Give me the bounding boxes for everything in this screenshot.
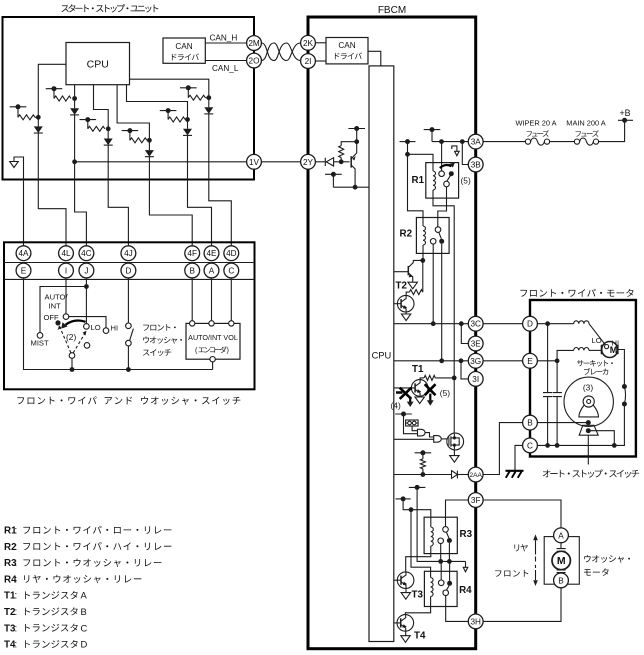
junction blade-gnd <box>612 443 617 448</box>
wire collector node to CPU <box>355 186 369 188</box>
direction arrow rear/front <box>533 534 538 586</box>
label LO <box>91 323 101 332</box>
label T3 <box>412 590 424 601</box>
wire pin J down <box>85 278 87 287</box>
power tick P13 <box>409 485 426 490</box>
wire CPU to T3 base <box>394 579 398 581</box>
wire E node to inductor L2 <box>557 350 574 360</box>
svg-text:HI: HI <box>111 324 119 333</box>
wire CPU to node1 feed <box>38 64 66 117</box>
wire CPU to T1 base <box>394 387 412 389</box>
label circuit breaker <box>577 360 613 375</box>
wire node2 to DA2 <box>74 99 76 109</box>
wire node5 to DA5 <box>187 120 189 129</box>
svg-text:D: D <box>81 639 88 650</box>
relay R1 contact NC dot <box>449 171 454 176</box>
svg-text:INT: INT <box>49 302 62 311</box>
power tick P9 <box>424 127 441 132</box>
wire pin I to OFF contact <box>65 278 67 314</box>
svg-text:2O: 2O <box>249 56 260 65</box>
power tick P3 <box>80 117 97 122</box>
wire CPU to 3G <box>394 360 469 362</box>
wire G1 to G2 <box>425 433 433 437</box>
junction C1-gnd <box>545 443 550 448</box>
wire P1 stem <box>17 107 19 118</box>
transistor T1 <box>411 380 428 397</box>
svg-text:3G: 3G <box>470 357 481 366</box>
front wiper motor box <box>530 300 636 457</box>
wire R4 coil feed <box>411 510 431 578</box>
wire CPU to node6 feed <box>130 79 209 98</box>
wire A to motor <box>560 543 562 549</box>
connector 4C <box>79 246 94 261</box>
svg-text:E: E <box>527 357 533 366</box>
svg-text::: : <box>15 542 18 553</box>
wire R4 coil to T4 <box>405 597 430 615</box>
diode DA6 <box>204 107 213 114</box>
wire P6 stem <box>187 88 189 98</box>
encoder terminal 1 <box>190 321 195 326</box>
relay R1 arrow <box>440 163 455 169</box>
svg-text:R1: R1 <box>412 175 425 186</box>
chassis ground <box>506 471 524 478</box>
svg-text:4L: 4L <box>61 249 71 258</box>
wire 2Y to diode D1 <box>315 161 325 163</box>
resistor R7 <box>424 375 435 380</box>
washer switch contact upper <box>126 323 132 329</box>
legend R2 <box>4 542 171 553</box>
label AUTO/INT <box>45 293 69 311</box>
wire sensor to gate1 <box>412 426 417 431</box>
connector 2O <box>247 53 262 68</box>
connector 3G <box>468 353 483 368</box>
svg-text:C: C <box>527 441 533 450</box>
ground T3 <box>401 593 410 600</box>
svg-text:4A: 4A <box>18 249 29 258</box>
connector 3E <box>468 336 483 351</box>
junction node4 <box>147 138 152 143</box>
fuse WIPER 20A <box>525 138 549 145</box>
wire J node to MIST contact <box>40 287 86 333</box>
relay R2 box <box>416 218 449 254</box>
resistor R5 <box>339 146 344 158</box>
wire 2I to CAN driver <box>315 60 326 62</box>
FBCM box <box>308 17 476 649</box>
wire RA1 to node1 <box>35 116 38 118</box>
junction R1 contact feed <box>439 139 444 144</box>
resistor RA1 <box>18 115 35 120</box>
switch wiper pivot <box>69 353 75 359</box>
label (4) <box>391 401 401 411</box>
relay R3 coil <box>431 527 433 546</box>
svg-text:A: A <box>209 266 215 275</box>
relay R4 coil <box>431 578 433 597</box>
label OFF <box>44 313 60 322</box>
connector pin C (switch) <box>224 263 239 278</box>
wire 2AA to B <box>483 423 522 475</box>
svg-text:R4: R4 <box>459 585 472 596</box>
svg-text::: : <box>15 558 18 569</box>
ground Q2 <box>401 314 410 321</box>
wire C to chassis ground <box>515 445 523 470</box>
relay R2 contact NC dot <box>439 239 444 244</box>
svg-text:C: C <box>228 266 234 275</box>
wire 3F to washer A <box>483 500 561 528</box>
wire washer B to 3H <box>483 588 561 622</box>
connector 2AA <box>468 467 483 482</box>
diode DA2 <box>70 108 79 115</box>
wire OFF to HI contact <box>69 317 106 328</box>
connector pin A (switch) <box>204 263 219 278</box>
relay R2 arm <box>439 232 442 238</box>
label HI <box>111 324 119 333</box>
junction C2-gnd <box>555 443 560 448</box>
junction T2 collector node <box>420 258 425 263</box>
relay R3 arm <box>446 532 449 538</box>
buffer gate G2 <box>434 436 442 443</box>
legend R4 <box>4 574 141 585</box>
connector pin I (switch) <box>59 263 74 278</box>
junction R2NO-3C <box>431 321 436 326</box>
wire CAN driver to CPU <box>368 51 381 66</box>
svg-text:(5): (5) <box>461 175 471 185</box>
svg-text:T4: T4 <box>414 631 426 642</box>
autostop contact lower <box>622 402 627 407</box>
rotation arrow (2) <box>61 321 85 329</box>
wire B to brush dot <box>537 422 588 424</box>
wire T1 collector to R7 <box>420 378 424 380</box>
power tick P4 <box>122 128 139 133</box>
svg-text:2K: 2K <box>303 39 314 48</box>
wire P9 to +B rail <box>431 130 433 142</box>
svg-text:3C: 3C <box>470 320 481 329</box>
junction node5 <box>185 117 190 122</box>
connector row divider 1 <box>4 262 255 264</box>
auto-stop blade <box>579 425 598 435</box>
svg-text:B: B <box>527 419 533 428</box>
connector 4F <box>185 246 200 261</box>
svg-text:3H: 3H <box>470 617 481 626</box>
encoder terminal 3 <box>229 321 234 326</box>
junction 3B branch <box>460 139 465 144</box>
svg-text:4J: 4J <box>124 249 133 258</box>
wire L2 to LO brush <box>589 349 601 351</box>
connector 4E <box>204 246 219 261</box>
transistor Q2 <box>397 295 414 312</box>
wire DA6 to connector 4D <box>209 114 232 246</box>
wire drain line into Q3 <box>453 378 455 433</box>
label fuse 1 <box>527 130 549 137</box>
relay R4 box <box>424 571 457 606</box>
relay R4 contact NC dot <box>447 581 452 586</box>
encoder terminal 4 <box>210 357 215 362</box>
+B terminal <box>618 118 633 123</box>
connector 4L <box>59 246 74 261</box>
svg-text:B: B <box>189 266 195 275</box>
label R1 <box>412 175 425 186</box>
wire 3C to D <box>483 323 522 325</box>
connector row divider 2 <box>4 278 255 280</box>
connector 3A <box>468 134 483 149</box>
resistor R6 <box>409 290 422 295</box>
connector pin E (switch) <box>16 263 31 278</box>
wire R6 to Q2 collector <box>406 292 409 295</box>
wire R4 NC up <box>449 561 451 580</box>
wire R4 common to 3H <box>446 596 469 622</box>
junction pivot-bus <box>70 367 75 372</box>
label MIST <box>31 338 50 347</box>
washer motor M2 <box>552 551 570 569</box>
inductor L1 <box>574 321 589 324</box>
connector pin J (switch) <box>79 263 94 278</box>
switch contact INT <box>84 343 90 349</box>
wire M to autostop contact <box>618 350 625 385</box>
wire pivot to bus <box>71 358 73 369</box>
wire DA3 to connector 4J <box>108 145 128 246</box>
relay R1 box <box>426 163 459 199</box>
wire R1 pivot to R2 common <box>438 187 447 227</box>
washer brush upper <box>557 549 566 552</box>
junction node3 <box>106 126 111 131</box>
wire 3G to E <box>483 360 522 362</box>
wire P2 stem <box>53 89 55 99</box>
wire CPU to Q2 base <box>394 303 398 305</box>
label (3) <box>583 382 593 392</box>
front wiper and washer switch box <box>4 242 255 389</box>
junction R2NC-3G <box>439 358 444 363</box>
wire CPU to 3C <box>394 323 469 325</box>
label front <box>495 570 528 577</box>
connector pin B (switch) <box>185 263 200 278</box>
wire RA4 to node4 <box>147 139 150 141</box>
switch unit title <box>17 396 240 404</box>
wire pin B to encoder <box>191 278 193 321</box>
diode DA1 <box>34 126 43 133</box>
svg-text:CPU: CPU <box>87 59 109 71</box>
junction washer-bus <box>126 367 131 372</box>
wire CPU to 2AA <box>394 474 452 476</box>
connector 2Y <box>301 154 316 169</box>
capacitor C2 <box>553 393 562 397</box>
wire pin C to encoder <box>230 278 232 321</box>
svg-text:T3: T3 <box>412 590 424 601</box>
wire R4 NO up <box>440 561 442 580</box>
wire coil rail down to R2 coil <box>408 154 424 226</box>
svg-text:R2: R2 <box>400 229 413 240</box>
ground T1 <box>415 397 424 404</box>
wire RA5 to node5 <box>185 119 187 121</box>
wire encoder to bus <box>212 362 214 370</box>
relay R3 contact NO <box>438 538 444 544</box>
wire node6 to DA6 <box>208 98 210 108</box>
svg-text:CAN_L: CAN_L <box>212 64 239 73</box>
label LO <box>592 336 602 345</box>
wire R7 to drain line <box>435 377 454 379</box>
connector 4A <box>16 246 31 261</box>
junction Q1 emitter node <box>354 139 359 144</box>
svg-text:E: E <box>21 266 27 275</box>
legend T4 <box>4 639 88 651</box>
power tick P12 <box>415 450 432 455</box>
svg-text:R3: R3 <box>460 529 473 540</box>
wire R1 coil to drain line <box>433 190 454 378</box>
wire P8 to collector node <box>332 174 334 187</box>
label front washer switch <box>143 324 182 356</box>
label +B <box>619 108 630 118</box>
wiper arm dashed to LO <box>73 331 86 353</box>
label (5) at T1 <box>440 388 450 398</box>
auto-stop cam ring <box>583 396 594 407</box>
wire P7 to Q1 emitter <box>356 129 358 154</box>
relay R4 arm <box>446 586 449 591</box>
wire R1 common up <box>441 142 443 171</box>
resistor R8 <box>420 459 425 469</box>
svg-text:3I: 3I <box>472 375 479 384</box>
connector C (motor) <box>523 438 538 453</box>
svg-text::: : <box>15 607 18 618</box>
junction node 1V <box>72 159 77 164</box>
fuse MAIN 200A <box>574 138 598 145</box>
svg-text:T1: T1 <box>412 364 424 375</box>
relay R1 arm <box>447 175 451 181</box>
junction 3I branch <box>459 358 464 363</box>
encoder terminal 2 <box>209 321 214 326</box>
svg-text:2I: 2I <box>305 57 312 66</box>
switch contact HI <box>103 328 109 334</box>
power tick P10 <box>400 139 416 144</box>
wire CPU to node2 feed <box>74 85 76 99</box>
svg-text:T2: T2 <box>396 281 408 292</box>
twisted pair CAN bus <box>262 43 301 61</box>
wire CPU to T2 base <box>394 271 409 273</box>
svg-text:CAN: CAN <box>338 41 355 50</box>
wire R3 NC down <box>448 543 450 561</box>
junction 3E branch <box>459 321 464 326</box>
label auto-stop switch <box>543 469 639 477</box>
svg-text:WIPER 20 A: WIPER 20 A <box>515 119 556 128</box>
legend R1 <box>4 526 171 537</box>
wire P14 to R3 coil <box>403 499 431 527</box>
inductor L2 <box>574 347 589 350</box>
wire coil rail to R1 coil <box>408 154 434 171</box>
legend R3 <box>4 558 161 569</box>
indicator arrow (5) at R1 <box>452 146 459 156</box>
svg-text:(3): (3) <box>583 382 593 392</box>
start-stop unit box <box>3 17 255 180</box>
auto-stop plate circle <box>564 377 613 426</box>
legend T3 <box>4 622 88 634</box>
transistor T4 <box>397 615 414 632</box>
auto-stop label leader <box>587 435 589 464</box>
wire R5 to emitter rail <box>341 142 357 146</box>
label WIPER 20 A <box>515 119 556 128</box>
svg-text::: : <box>15 640 18 651</box>
CAN driver U2 (start-stop unit) <box>163 38 205 63</box>
svg-text:+B: +B <box>619 108 630 118</box>
wire Q3 source to ground <box>453 450 455 456</box>
relay R2 contact NO <box>430 239 436 245</box>
connector A (washer) <box>554 528 569 543</box>
power tick P7 <box>348 126 365 131</box>
power tick P1 <box>10 104 27 109</box>
wire fuse to fuse <box>550 141 575 143</box>
power tick P6 <box>180 85 197 90</box>
switch contact OFF <box>63 314 69 320</box>
svg-text:B: B <box>558 576 564 585</box>
svg-text:OFF: OFF <box>44 313 60 322</box>
svg-text:CAN_H: CAN_H <box>210 34 238 43</box>
svg-text:3B: 3B <box>471 160 482 169</box>
capacitor C1 <box>543 393 552 397</box>
wire P5 stem <box>167 111 169 120</box>
ground T2 <box>408 282 417 289</box>
wire +B rail to 3A <box>432 141 468 143</box>
svg-text::: : <box>15 623 18 634</box>
label R2 <box>400 229 413 240</box>
wire node2 out to connector 4C <box>75 162 87 246</box>
svg-text:FBCM: FBCM <box>378 5 406 16</box>
junction R3NC rail <box>447 559 452 564</box>
connector B (washer) <box>554 573 569 588</box>
svg-text::: : <box>15 591 18 602</box>
connector B (motor) <box>523 415 538 430</box>
svg-text:2Y: 2Y <box>303 158 314 167</box>
wire R3 NO down <box>440 544 442 562</box>
CPU U4 (FBCM) <box>369 66 394 642</box>
wire collector node left <box>333 186 355 188</box>
label HI <box>612 339 620 348</box>
auto-stop brush contact 1 <box>586 420 591 425</box>
junction J node <box>84 284 89 289</box>
relay R1 coil <box>433 171 435 190</box>
label T2 <box>396 281 408 292</box>
connector 2I <box>301 54 316 69</box>
diode D1 <box>325 158 333 166</box>
svg-text:3E: 3E <box>471 339 482 348</box>
wire 3A to fuse <box>483 141 525 143</box>
svg-text:LO: LO <box>592 336 602 345</box>
resistor RA5 <box>168 117 185 122</box>
wire node3 to DA3 <box>107 129 109 139</box>
wire cap C2 to ground line <box>556 397 558 446</box>
wire L1 to HI brush <box>589 324 606 346</box>
wire DA1 to connector 4L <box>38 133 66 246</box>
wire node1 to diode DA1 <box>37 117 39 126</box>
relay R4 contact common <box>443 590 449 596</box>
connector 3I <box>468 372 483 387</box>
sensor box <box>406 420 419 426</box>
svg-text:CAN: CAN <box>175 42 192 51</box>
ground Q3 <box>450 456 459 463</box>
relay R4 contact NO <box>438 580 444 586</box>
connector 3B <box>468 157 483 172</box>
diode DA5 <box>183 129 192 136</box>
svg-text:4C: 4C <box>81 249 92 258</box>
connector 1V <box>247 154 262 169</box>
label MAIN 200 A <box>566 119 606 128</box>
svg-text:(5): (5) <box>440 388 450 398</box>
junction node2 <box>72 96 77 101</box>
connector 2K <box>301 35 316 50</box>
CPU U1 (start-stop unit) <box>66 43 130 85</box>
svg-text:A: A <box>558 531 564 540</box>
relay R3 box <box>424 517 457 553</box>
wire 3I branch <box>461 361 468 379</box>
label R4 <box>459 585 472 596</box>
wire CAN driver to 2O <box>205 60 246 62</box>
resistor RA4 <box>130 138 147 143</box>
svg-text:MAIN 200 A: MAIN 200 A <box>566 119 606 128</box>
